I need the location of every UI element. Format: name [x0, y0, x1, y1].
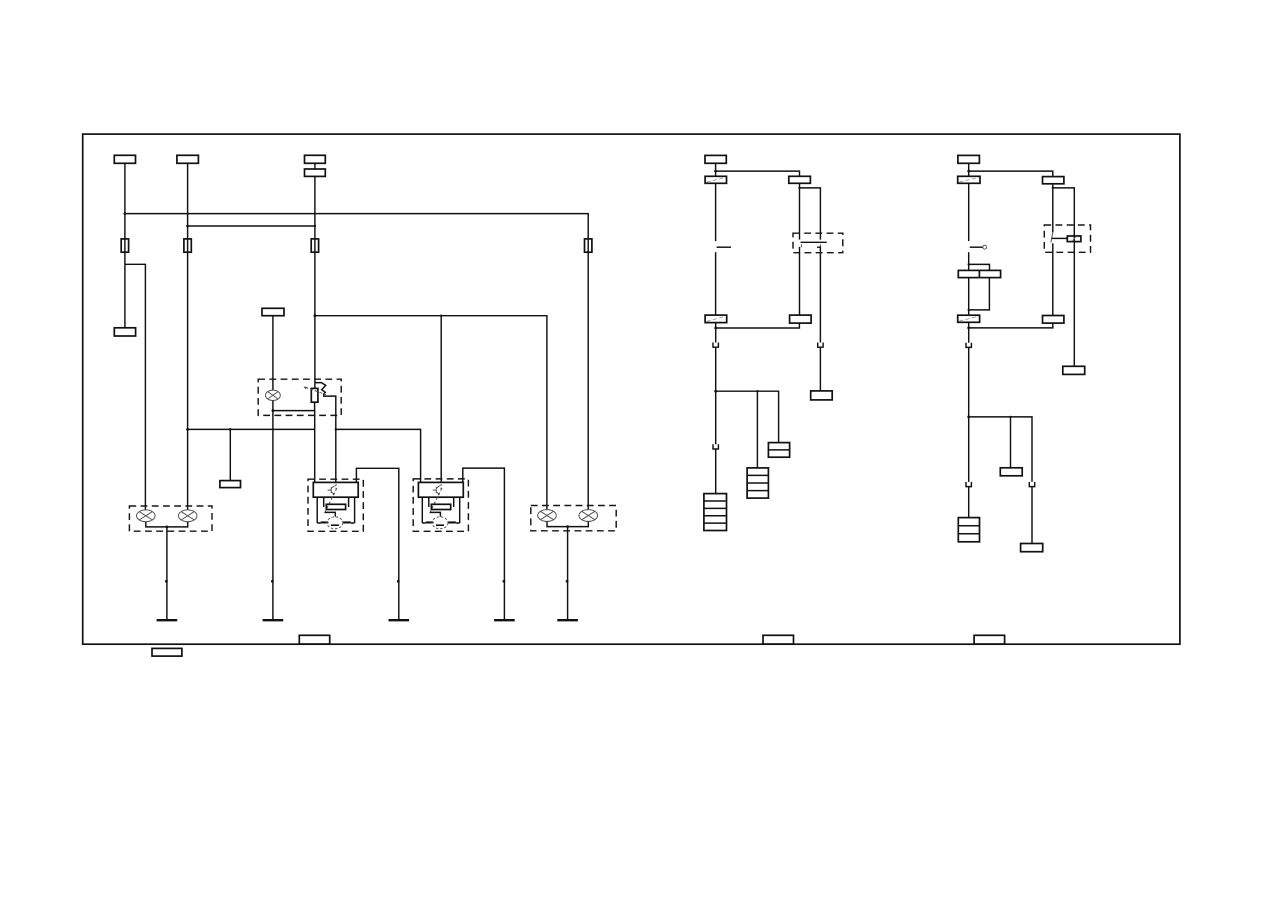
wire to R11 [1031, 487, 1033, 544]
wire M4-M5 lower link [716, 323, 800, 328]
hazard flasher transistor [433, 484, 442, 494]
joint connector R10 [958, 518, 979, 542]
resistor R1 [311, 388, 318, 402]
R5 divider [978, 270, 980, 277]
label box C4 [152, 648, 182, 656]
wire signal run right [336, 429, 421, 482]
bulb L2 [178, 510, 197, 522]
node right branch [967, 416, 970, 419]
connector terminal B3b [305, 169, 326, 176]
joint connector M7 [747, 468, 768, 498]
connector R6 [958, 315, 980, 322]
wire main down right [968, 417, 970, 482]
wire housing2 to ground [567, 527, 569, 621]
node branch tap [756, 390, 758, 392]
connector terminal R3 [1043, 177, 1064, 184]
wire to M8 [715, 449, 717, 494]
hazard flasher contact lead [430, 512, 440, 516]
wire S1 down to M4 [715, 252, 717, 315]
inline connector on wire x=968.7 [965, 482, 972, 487]
wire coil down to R8 [1073, 242, 1075, 367]
wire pole B down [817, 247, 820, 342]
combination meter dashed case [258, 379, 341, 415]
splice on wire x=567.6 [566, 580, 569, 582]
inline connector on wire x=1032 [1029, 482, 1036, 487]
node bus2 start [186, 225, 189, 228]
relay blade [1051, 233, 1053, 243]
wire to R10 [968, 487, 970, 518]
switch S2 tick [970, 246, 983, 248]
ground G4 [494, 619, 515, 621]
node R1 branch [967, 170, 970, 173]
splice on wire x=166.9 [165, 580, 168, 582]
inline connector on wire x=820.4 [817, 343, 824, 348]
connector terminal M5 [790, 315, 812, 323]
wire L1-L2 common [146, 522, 188, 527]
wire signal run left [188, 428, 315, 430]
connector terminal R1 [958, 155, 980, 163]
inline connector on wire x=968.7 [965, 343, 972, 348]
connector M4 [705, 315, 727, 323]
relay coil [1067, 236, 1081, 242]
connector terminal B3a [305, 155, 326, 163]
inline connector on wire x=715.7 [712, 343, 719, 348]
wire M4 down [715, 323, 717, 343]
wire contact out [324, 394, 336, 483]
wire B6 to indicator lamp [272, 316, 274, 390]
connector terminal B4 [114, 328, 135, 336]
wire F2 down to lamp L2 [187, 252, 189, 510]
fuse F2 [184, 239, 191, 252]
node signal tap on F2 wire [186, 428, 189, 431]
connector terminal B1 [114, 155, 135, 163]
wire B2 down to fuse F2 [187, 163, 189, 252]
wire M1 branch right [716, 171, 800, 176]
wire housing1 to ground [166, 527, 168, 620]
arrow adjust [304, 387, 327, 395]
connector M2 [705, 176, 726, 183]
node hazard feed tap [314, 314, 317, 317]
fuse F4 [585, 239, 592, 252]
turn signal flasher internal leads [317, 497, 354, 523]
turn signal flasher vibrator pads [321, 521, 329, 523]
connector terminal R9 [1000, 468, 1022, 476]
wire B3b down to fuse F3 [314, 176, 316, 252]
indicator lamp L5 [266, 390, 281, 400]
node R6 lower [967, 327, 970, 330]
turn signal flasher motor [327, 517, 343, 529]
node housing1 common [166, 526, 169, 529]
connector terminal R11 [1021, 544, 1043, 552]
node housing2 common [566, 525, 569, 528]
connector terminal M3 [789, 176, 811, 183]
wire L5 to ground run [272, 401, 274, 621]
wire F1 down to B4 [124, 214, 126, 328]
wire R3 to relay pole [1052, 184, 1054, 233]
frame connector C2 [763, 635, 794, 644]
connector terminal M1 [705, 155, 726, 163]
connector terminal R7 [1043, 316, 1064, 324]
wire M2 to switch S1 [715, 183, 717, 241]
turn signal flasher dashed diagonal [325, 486, 338, 513]
node tap B5 [229, 428, 232, 431]
connector terminal B2 [177, 155, 199, 163]
fuse F1 [121, 239, 128, 252]
wire B1 down [124, 163, 126, 213]
wire main down [715, 391, 717, 444]
fuse F3 [311, 239, 318, 252]
joint connector M8 [704, 494, 727, 531]
node R3 branch [1052, 187, 1054, 189]
hazard switch contact bar [801, 241, 827, 243]
node M1 branch [714, 170, 717, 173]
node mid branch [714, 390, 717, 393]
connector terminal M9 [811, 391, 833, 400]
wire to right branch node [968, 347, 970, 417]
turn signal flasher inner case [313, 482, 358, 497]
wire R2 to switch S2 [968, 183, 970, 241]
wire R1 down [968, 163, 970, 176]
connector R2 [958, 176, 980, 183]
frame connector C3 [974, 635, 1005, 644]
splice on wire x=504.4 [503, 580, 506, 582]
stop switch S1 tick [717, 246, 731, 248]
rear turn signal housing [531, 506, 616, 531]
wire R5 right loop [969, 278, 990, 310]
connector block R5 [958, 270, 1000, 277]
turn signal flasher dashed case [308, 479, 363, 531]
node bus1 start [124, 212, 127, 215]
hazard flasher resistor [431, 504, 450, 509]
bus wire from B2 [188, 225, 315, 227]
wire resistor to flasher1 [314, 411, 316, 483]
hazard flasher vibrator links [422, 522, 459, 524]
hazard switch dashed case [793, 233, 843, 253]
hazard switch pole ticks [801, 244, 820, 247]
node tap R9 [1009, 416, 1011, 418]
wire R6 down [968, 322, 970, 342]
ground G3 [389, 619, 410, 621]
wire pole B to M9 [819, 347, 821, 391]
front turn signal housing [129, 506, 212, 531]
turn signal flasher vibrator links [317, 522, 354, 524]
hazard flasher dashed diagonal [430, 486, 443, 513]
ground G2 [263, 619, 284, 621]
wire stack top [969, 264, 990, 270]
wire B3a-B3b link [314, 163, 316, 169]
node loop join [968, 309, 970, 311]
wire tap to B5 [229, 429, 231, 480]
horn relay dashed case [1044, 225, 1090, 252]
connector terminal B5 [220, 481, 241, 488]
wire to branch node [715, 347, 717, 391]
bus wire from B1 [125, 214, 588, 253]
hazard flasher motor [432, 517, 448, 529]
wire pole A down to M5 [799, 247, 801, 315]
wire branch tap [756, 391, 758, 468]
wire flasher1 ground lead [356, 468, 398, 620]
bulb L3 [538, 510, 557, 522]
hazard flasher inner case [418, 482, 463, 497]
node M4 lower [714, 327, 717, 330]
connector terminal B6 [262, 308, 284, 315]
node contact wire tap [335, 428, 337, 430]
relay contact line [1052, 237, 1068, 239]
wire L3-L4 common [547, 521, 588, 526]
node M3 branch [798, 187, 800, 189]
turn signal flasher transistor [328, 484, 337, 494]
splice on wire x=398.8 [397, 580, 400, 582]
wire pole down to R7 [1052, 243, 1054, 315]
hazard flasher internal leads [422, 497, 459, 523]
wire F3 down to resistor [314, 252, 316, 388]
hazard flasher dashed case [413, 479, 468, 531]
wire R3 branch to coil [1053, 188, 1075, 242]
wire L5-resistor link [273, 402, 315, 410]
wire M3 branch to pole B [800, 188, 821, 240]
wire R6-R7 lower link [969, 323, 1053, 328]
connector terminal R8 [1063, 366, 1085, 374]
node tap flasher2 [440, 315, 442, 317]
wire right branch [969, 417, 1032, 482]
turn signal flasher resistor [326, 504, 345, 509]
wire tap to flasher2 [440, 316, 442, 483]
wire F4 down to lamp L4 [587, 252, 589, 510]
bimetal contact [315, 383, 326, 394]
wire branch tap R9 [1010, 417, 1012, 468]
outer frame [83, 134, 1180, 644]
node bus2 end [314, 225, 316, 227]
node L5 link [272, 409, 275, 412]
node stack top [968, 263, 970, 265]
wire branch to front lamp feed [125, 264, 145, 510]
switch S2 circle [983, 245, 987, 249]
joint connector M6 [768, 443, 789, 458]
wire R1 branch right [969, 171, 1053, 177]
frame connector C1 [299, 635, 329, 644]
wire S2 down [968, 252, 970, 270]
ground G1 [157, 619, 178, 621]
wire flasher2 ground lead [463, 468, 505, 620]
ground G5 [557, 619, 578, 621]
bulb L4 [579, 510, 598, 522]
hazard flasher vibrator pads [426, 521, 434, 523]
wire hazard feed [315, 316, 547, 510]
bulb L1 [137, 510, 156, 522]
splice on wire x=272.9 [271, 580, 274, 582]
wire branch right [716, 391, 779, 442]
wire R5 left down [968, 278, 970, 316]
inline connector on wire x=715.7 [712, 444, 719, 449]
wire M1 down [715, 163, 717, 176]
wire M3 to relay pole A [799, 183, 801, 239]
turn signal flasher contact lead [325, 512, 335, 516]
